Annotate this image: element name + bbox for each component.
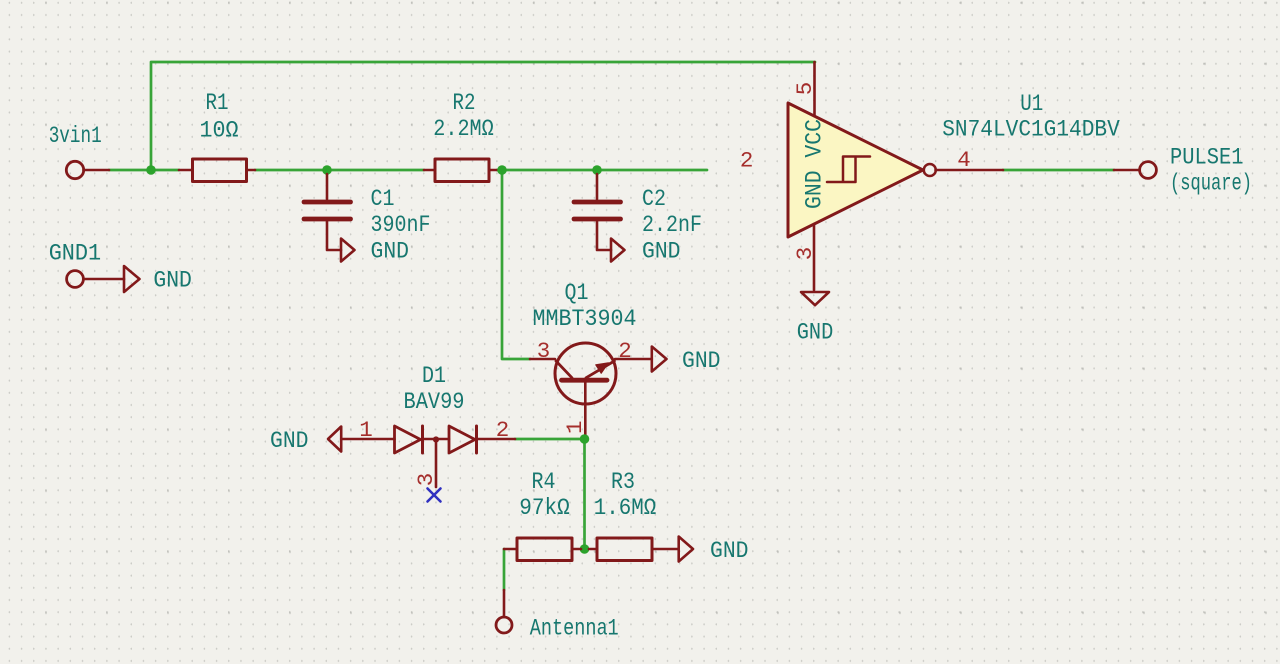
- node C1 junction: [322, 165, 332, 175]
- svg-text:GND VCC: GND VCC: [802, 119, 828, 209]
- pin number 3 (D1): [413, 473, 439, 487]
- pin number 2: [740, 148, 754, 174]
- U1 output bubble: [924, 164, 936, 176]
- U1 pin 4 line: [936, 169, 1004, 172]
- port GND1: [67, 271, 84, 288]
- label GND (Q1): [682, 348, 721, 374]
- svg-text:1.6MΩ: 1.6MΩ: [594, 495, 657, 521]
- gnd flag C2: [611, 239, 625, 262]
- pin number 4: [957, 147, 971, 173]
- svg-text:R4: R4: [532, 469, 556, 495]
- U1 pin 3 (GND): [813, 224, 816, 290]
- port PULSE1: [1140, 162, 1157, 179]
- svg-text:2: 2: [740, 148, 754, 174]
- pin stub Antenna1: [503, 590, 506, 617]
- svg-text:C2: C2: [642, 186, 666, 212]
- svg-text:1: 1: [359, 417, 373, 443]
- node C junction: [580, 434, 590, 444]
- svg-text:3: 3: [413, 473, 439, 487]
- op-amp U1 body: [788, 103, 923, 237]
- svg-text:SN74LVC1G14DBV: SN74LVC1G14DBV: [942, 117, 1120, 143]
- node B junction: [497, 165, 507, 175]
- svg-text:2: 2: [496, 417, 510, 443]
- svg-text:3: 3: [537, 338, 551, 364]
- node C2 junction: [592, 165, 602, 175]
- port 3vin1: [66, 161, 83, 178]
- label GND (D1): [270, 428, 309, 454]
- pin number 3: [792, 247, 818, 261]
- svg-text:3: 3: [792, 247, 818, 261]
- pin stub 3vin1: [84, 169, 110, 172]
- no-connect X: [428, 489, 441, 502]
- svg-text:Q1: Q1: [565, 280, 589, 306]
- label Q1 MMBT3904: [533, 280, 637, 332]
- label PULSE1 (square): [1170, 144, 1252, 196]
- pin number 2 (Q1 emitter): [618, 338, 632, 364]
- node D junction: [580, 544, 590, 554]
- pin stub GND1: [84, 278, 125, 281]
- label R2 2.2Mohm: [433, 90, 494, 142]
- svg-text:GND: GND: [153, 267, 192, 293]
- U1 hysteresis symbol: [827, 157, 870, 183]
- svg-text:2.2MΩ: 2.2MΩ: [433, 116, 494, 142]
- gnd flag Q1 emitter: [652, 347, 667, 372]
- wire antenna riser: [503, 549, 506, 590]
- pin number 3 (Q1 collector): [537, 338, 551, 364]
- gnd flag R3: [679, 537, 693, 562]
- svg-text:U1: U1: [1020, 91, 1043, 117]
- svg-text:5: 5: [792, 82, 818, 96]
- resistor R4: [504, 538, 581, 561]
- label U1 SN74LVC1G14DBV: [942, 91, 1120, 143]
- svg-text:Antenna1: Antenna1: [530, 616, 619, 642]
- svg-text:GND: GND: [371, 239, 410, 265]
- label GND under U1: [797, 320, 834, 346]
- pin number 1 (D1): [359, 417, 373, 443]
- svg-text:PULSE1: PULSE1: [1170, 144, 1244, 170]
- wire R1 to R2: [255, 169, 424, 172]
- svg-text:BAV99: BAV99: [404, 389, 465, 415]
- svg-text:GND: GND: [270, 428, 309, 454]
- gnd flag C1: [341, 239, 355, 262]
- label R1 10ohm: [200, 90, 239, 144]
- pin number 1 (Q1 base): [562, 421, 588, 435]
- wire D1 pin2 to node C: [515, 438, 585, 441]
- svg-text:GND1: GND1: [49, 241, 101, 267]
- label C1 390nF GND: [371, 186, 431, 265]
- svg-text:D1: D1: [422, 363, 446, 389]
- svg-text:10Ω: 10Ω: [200, 118, 239, 144]
- node A junction: [146, 165, 156, 175]
- capacitor C2: [574, 174, 621, 250]
- svg-text:4: 4: [957, 147, 971, 173]
- pin number 2 (D1): [496, 417, 510, 443]
- svg-text:GND: GND: [797, 320, 834, 346]
- label 3vin1: [49, 123, 102, 149]
- label GND (GND1): [153, 267, 192, 293]
- svg-text:GND: GND: [642, 239, 681, 265]
- resistor R3: [589, 538, 679, 561]
- pin number 5: [792, 82, 818, 96]
- gnd flag D1 left: [328, 427, 341, 452]
- label D1 BAV99: [404, 363, 465, 415]
- wire top loop from node A to U1 VCC: [151, 62, 815, 170]
- svg-text:2: 2: [618, 338, 632, 364]
- capacitor C1: [304, 174, 351, 250]
- svg-text:R1: R1: [206, 90, 229, 116]
- svg-text:GND: GND: [682, 348, 721, 374]
- transistor Q1: [530, 343, 652, 436]
- diode D1: [341, 426, 515, 487]
- U1 port names GND VCC: [802, 119, 828, 209]
- label R4 97kohm: [519, 469, 570, 521]
- wire 3vin1 port to node A: [109, 169, 179, 172]
- svg-text:1: 1: [562, 421, 588, 435]
- svg-text:R2: R2: [453, 90, 476, 116]
- U1 pin 5 (VCC): [813, 62, 816, 116]
- label C2 2.2nF GND: [642, 186, 702, 265]
- label GND1: [49, 241, 101, 267]
- port Antenna1: [496, 617, 512, 633]
- svg-text:3vin1: 3vin1: [49, 123, 102, 149]
- gnd flag GND1: [124, 266, 140, 292]
- svg-text:GND: GND: [710, 538, 749, 564]
- svg-text:(square): (square): [1170, 170, 1252, 196]
- wire node B down to Q1 collector: [502, 170, 530, 359]
- svg-text:390nF: 390nF: [371, 212, 431, 238]
- svg-text:MMBT3904: MMBT3904: [533, 306, 637, 332]
- wire node C down to node D: [583, 439, 586, 549]
- wire R2 to U1 input: [497, 169, 707, 172]
- resistor R2: [424, 159, 497, 182]
- resistor R1: [179, 159, 255, 182]
- label Antenna1: [530, 616, 619, 642]
- power symbol GND under U1: [801, 292, 829, 305]
- svg-text:R3: R3: [611, 469, 635, 495]
- wire U1 output to PULSE1: [1003, 169, 1114, 172]
- label R3 1.6Mohm: [594, 469, 657, 521]
- label GND (R3): [710, 538, 749, 564]
- svg-text:C1: C1: [371, 186, 395, 212]
- svg-text:97kΩ: 97kΩ: [519, 495, 570, 521]
- pin stub PULSE1: [1114, 169, 1140, 172]
- svg-text:2.2nF: 2.2nF: [642, 212, 702, 238]
